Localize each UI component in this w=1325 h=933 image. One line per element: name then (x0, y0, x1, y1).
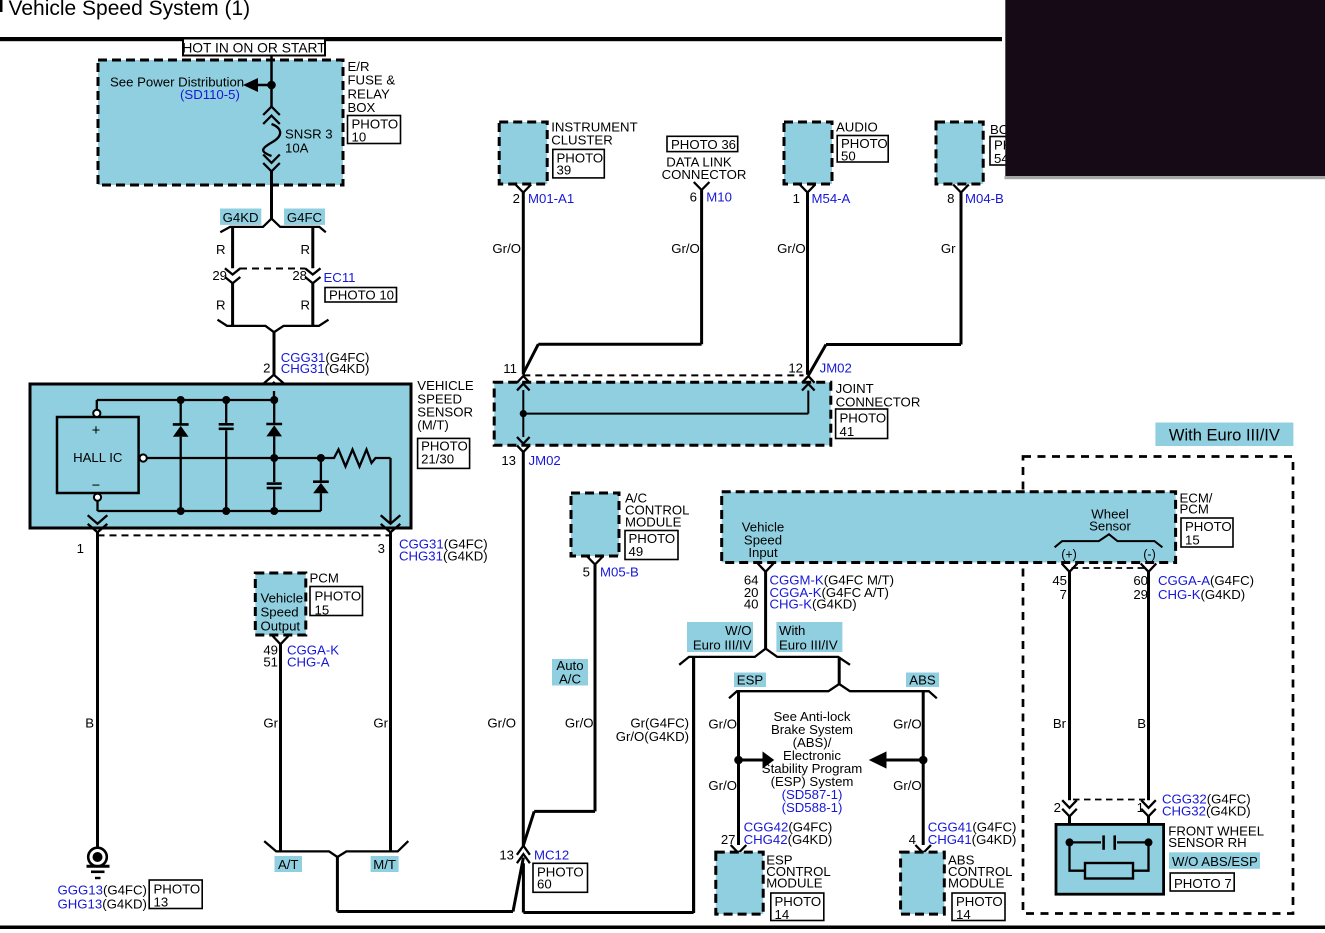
svg-text:Gr/O(G4KD): Gr/O(G4KD) (616, 729, 689, 744)
svg-text:(-): (-) (1143, 548, 1156, 562)
svg-text:AUDIO: AUDIO (836, 120, 878, 135)
svg-text:15: 15 (315, 603, 330, 618)
svg-text:CHG32(G4KD): CHG32(G4KD) (1162, 804, 1251, 819)
svg-text:39: 39 (557, 163, 572, 178)
svg-text:−: − (92, 478, 100, 494)
svg-text:49: 49 (629, 544, 644, 559)
svg-text:Gr/O: Gr/O (487, 716, 516, 731)
svg-text:14: 14 (956, 907, 971, 922)
svg-text:50: 50 (841, 149, 856, 164)
svg-text:10A: 10A (285, 141, 309, 156)
svg-text:With: With (779, 623, 805, 638)
svg-text:Gr/O: Gr/O (893, 716, 922, 731)
svg-text:CHG-K(G4KD): CHG-K(G4KD) (1158, 587, 1245, 602)
svg-text:R: R (300, 298, 310, 313)
svg-text:SENSOR RH: SENSOR RH (1168, 835, 1246, 850)
svg-text:HOT IN ON OR START: HOT IN ON OR START (182, 41, 326, 56)
svg-text:27: 27 (721, 832, 736, 847)
svg-text:CHG31(G4KD): CHG31(G4KD) (281, 361, 370, 376)
svg-text:Gr/O: Gr/O (777, 241, 806, 256)
svg-text:PHOTO: PHOTO (315, 589, 362, 604)
svg-text:CHG41(G4KD): CHG41(G4KD) (928, 832, 1017, 847)
svg-text:Speed: Speed (261, 605, 299, 620)
svg-text:Gr: Gr (941, 241, 956, 256)
svg-text:15: 15 (1185, 533, 1200, 548)
svg-text:60: 60 (1133, 573, 1148, 588)
svg-text:8: 8 (947, 191, 954, 206)
svg-text:28: 28 (292, 268, 307, 283)
svg-text:(SD588-1): (SD588-1) (782, 800, 843, 815)
svg-text:EC11: EC11 (324, 270, 356, 285)
svg-text:A/T: A/T (278, 857, 299, 872)
svg-text:Sensor: Sensor (1089, 519, 1131, 534)
svg-text:FUSE &: FUSE & (348, 73, 396, 88)
svg-text:MC12: MC12 (534, 848, 569, 863)
svg-text:CHG-A: CHG-A (287, 654, 330, 669)
svg-text:60: 60 (537, 877, 552, 892)
svg-text:1: 1 (793, 191, 800, 206)
svg-text:5: 5 (583, 565, 590, 580)
svg-text:Gr/O: Gr/O (671, 241, 700, 256)
svg-text:SNSR 3: SNSR 3 (285, 127, 333, 142)
svg-text:G4KD: G4KD (223, 210, 259, 225)
svg-text:(SD110-5): (SD110-5) (180, 87, 240, 102)
svg-text:W/O ABS/ESP: W/O ABS/ESP (1172, 854, 1258, 869)
svg-text:12: 12 (788, 361, 803, 376)
svg-text:13: 13 (154, 895, 169, 910)
svg-text:GHG13(G4KD): GHG13(G4KD) (58, 897, 147, 912)
svg-text:CHG31(G4KD): CHG31(G4KD) (399, 549, 488, 564)
svg-text:MODULE: MODULE (766, 876, 823, 891)
svg-text:M05-B: M05-B (600, 565, 639, 580)
svg-text:R: R (300, 242, 310, 257)
svg-text:29: 29 (212, 268, 227, 283)
svg-text:Vehicle Speed System (1): Vehicle Speed System (1) (9, 0, 251, 20)
svg-text:Gr/O: Gr/O (708, 778, 737, 793)
svg-text:G4FC: G4FC (287, 210, 323, 225)
svg-text:Vehicle: Vehicle (261, 591, 304, 606)
svg-text:CHG-K(G4KD): CHG-K(G4KD) (770, 597, 857, 612)
svg-text:CONNECTOR: CONNECTOR (836, 395, 921, 410)
svg-text:29: 29 (1133, 587, 1148, 602)
svg-text:21/30: 21/30 (421, 451, 454, 466)
svg-text:MODULE: MODULE (948, 876, 1005, 891)
svg-text:R: R (216, 298, 226, 313)
svg-text:A/C: A/C (559, 672, 581, 687)
svg-text:R: R (216, 242, 226, 257)
svg-text:2: 2 (1054, 800, 1061, 815)
svg-text:Br: Br (1053, 716, 1067, 731)
svg-text:11: 11 (503, 361, 517, 376)
svg-text:M/T: M/T (373, 857, 396, 872)
svg-text:7: 7 (1060, 587, 1067, 602)
svg-text:1: 1 (77, 541, 84, 556)
svg-text:PCM: PCM (1180, 502, 1209, 517)
svg-text:PCM: PCM (310, 570, 339, 585)
svg-text:Gr: Gr (263, 716, 278, 731)
svg-text:40: 40 (744, 597, 759, 612)
svg-text:51: 51 (263, 654, 278, 669)
svg-text:JM02: JM02 (529, 453, 561, 468)
svg-text:ESP: ESP (737, 673, 764, 688)
svg-text:(+): (+) (1061, 548, 1077, 562)
svg-text:+: + (92, 423, 100, 439)
svg-text:MODULE: MODULE (625, 515, 682, 530)
svg-text:CONNECTOR: CONNECTOR (662, 167, 747, 182)
svg-text:PHOTO 7: PHOTO 7 (1174, 876, 1232, 891)
svg-text:Output: Output (261, 619, 301, 634)
svg-text:(M/T): (M/T) (417, 418, 449, 433)
svg-text:2: 2 (263, 361, 270, 376)
svg-text:GGG13(G4FC): GGG13(G4FC) (58, 883, 147, 898)
svg-text:Gr/O: Gr/O (893, 778, 922, 793)
svg-text:W/O: W/O (725, 623, 751, 638)
svg-text:Gr: Gr (373, 716, 388, 731)
svg-text:Gr/O: Gr/O (492, 241, 521, 256)
svg-text:M01-A1: M01-A1 (528, 191, 574, 206)
svg-text:2: 2 (513, 191, 520, 206)
svg-text:Euro III/IV: Euro III/IV (779, 638, 838, 653)
svg-text:CGGA-A(G4FC): CGGA-A(G4FC) (1158, 573, 1254, 588)
svg-text:41: 41 (840, 424, 855, 439)
svg-text:4: 4 (909, 832, 916, 847)
svg-text:M10: M10 (706, 189, 732, 204)
svg-text:With Euro III/IV: With Euro III/IV (1169, 427, 1280, 445)
svg-text:JM02: JM02 (820, 361, 852, 376)
svg-text:Input: Input (748, 545, 778, 560)
svg-text:Gr/O: Gr/O (565, 716, 594, 731)
svg-text:HALL IC: HALL IC (73, 450, 123, 465)
svg-text:PHOTO 36: PHOTO 36 (671, 137, 736, 152)
svg-text:6: 6 (690, 189, 697, 204)
svg-text:13: 13 (501, 453, 516, 468)
svg-text:BOX: BOX (348, 100, 376, 115)
svg-text:10: 10 (352, 130, 367, 145)
svg-text:M54-A: M54-A (812, 191, 851, 206)
svg-text:M04-B: M04-B (965, 191, 1004, 206)
svg-text:1: 1 (1137, 800, 1144, 815)
svg-text:14: 14 (775, 907, 790, 922)
svg-text:ABS: ABS (909, 673, 936, 688)
svg-text:B: B (85, 716, 94, 731)
svg-text:CHG42(G4KD): CHG42(G4KD) (744, 832, 833, 847)
svg-text:3: 3 (378, 541, 385, 556)
svg-text:CLUSTER: CLUSTER (551, 133, 613, 148)
svg-text:13: 13 (499, 848, 514, 863)
svg-text:B: B (1137, 716, 1146, 731)
svg-text:Gr/O: Gr/O (708, 716, 737, 731)
svg-text:Euro III/IV: Euro III/IV (693, 638, 752, 653)
svg-text:45: 45 (1052, 573, 1067, 588)
svg-text:PHOTO 10: PHOTO 10 (329, 288, 394, 303)
